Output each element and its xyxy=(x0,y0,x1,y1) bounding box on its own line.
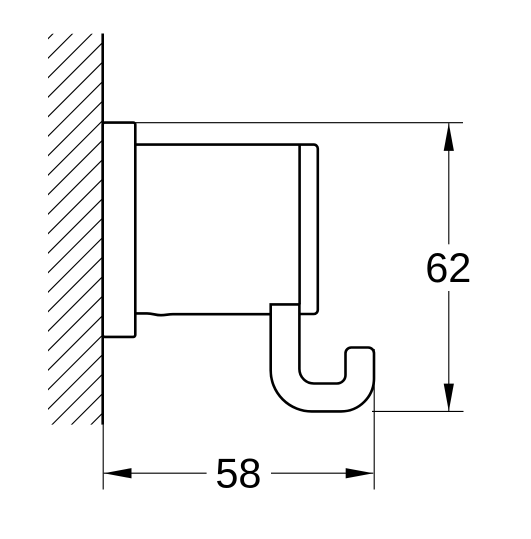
hook J profile xyxy=(271,304,374,411)
stem left edge xyxy=(298,145,301,304)
svg-text:62: 62 xyxy=(425,244,471,291)
dimension 62: bottom arrow xyxy=(444,384,454,412)
body top edge + right (stem) outline xyxy=(135,145,317,314)
dimension 58: right arrow xyxy=(346,468,374,478)
body bottom edge xyxy=(135,313,272,315)
dimension 62: dim line upper segment xyxy=(448,123,450,244)
dimension 62: bottom extension line xyxy=(372,410,464,412)
dimension 58: dim line left segment xyxy=(104,472,207,474)
dimension 58: left arrow xyxy=(104,468,132,478)
dimension 58: left extension line xyxy=(102,425,104,490)
wall face line xyxy=(101,34,104,425)
svg-text:58: 58 xyxy=(215,450,261,497)
dimension 58: right extension line xyxy=(373,349,375,490)
mounting plate xyxy=(103,123,136,337)
dimension 62: top extension line xyxy=(136,122,464,124)
dimension 62: dim line lower segment xyxy=(448,291,450,411)
dimension 62: top arrow xyxy=(444,123,454,151)
dimension 58: dim line right segment xyxy=(271,472,373,474)
